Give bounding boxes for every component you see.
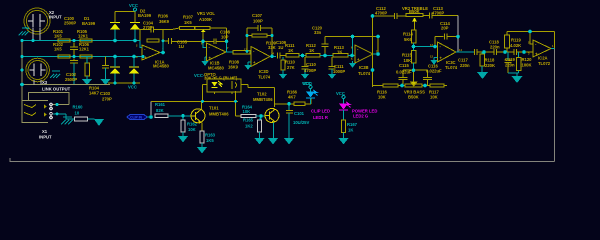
svg-text:10P: 10P <box>221 35 229 40</box>
svg-text:C110: C110 <box>306 62 316 67</box>
wire: IC2D output <box>270 56 276 58</box>
resistor R161 <box>155 102 191 118</box>
wire: mid tap to IC3C minus <box>414 46 436 48</box>
svg-text:VCC: VCC <box>129 3 138 8</box>
svg-text:C103: C103 <box>100 91 111 96</box>
svg-text:TL074: TL074 <box>445 65 458 70</box>
svg-text:R163: R163 <box>205 133 216 138</box>
capacitor C109 (series 1U) <box>276 40 287 59</box>
wire: IC3C output <box>456 51 475 53</box>
svg-text:16K9: 16K9 <box>228 65 239 70</box>
capacitor C108 (feedback) <box>203 30 231 45</box>
wire: IC2B output node <box>373 53 380 55</box>
capacitor C117 <box>458 49 494 68</box>
resistor R117 <box>429 84 447 100</box>
wire: right vertical return from IC2A output <box>554 32 556 49</box>
svg-text:12K1: 12K1 <box>78 34 89 39</box>
svg-text:1U: 1U <box>179 44 184 49</box>
op-amp IC2B <box>351 45 378 76</box>
transistor T102 <box>253 92 279 145</box>
ground at IC3C plus <box>431 58 438 66</box>
svg-text:VR1 VOL: VR1 VOL <box>197 11 215 16</box>
capacitor C110 4700P (shunt) <box>301 57 316 79</box>
capacitor C111 1000P (shunt) <box>328 57 345 79</box>
svg-text:BA199: BA199 <box>138 13 152 18</box>
transistor T101 <box>191 101 229 131</box>
ground (hatched) at X3 <box>50 71 60 78</box>
svg-text:R114: R114 <box>403 32 413 37</box>
svg-text:4700P: 4700P <box>432 11 444 16</box>
wire: IC2A minus from bracket <box>530 32 533 45</box>
svg-text:33n: 33n <box>314 30 322 35</box>
svg-text:IC2B: IC2B <box>359 65 369 70</box>
svg-text:27K: 27K <box>287 65 295 70</box>
svg-text:12K1: 12K1 <box>79 47 90 52</box>
resistor R114 (vertical) <box>403 30 416 47</box>
feedback C104 bracket <box>140 21 163 42</box>
svg-text:10K: 10K <box>188 127 196 132</box>
svg-text:1K5: 1K5 <box>54 34 62 39</box>
resistor R163 (emitter) <box>197 131 216 154</box>
wire: C113 to IC3C output node <box>457 16 459 53</box>
svg-text:R161: R161 <box>155 102 166 107</box>
capacitor C119 (shunt) <box>505 52 516 73</box>
capacitor C102 <box>65 59 78 86</box>
svg-text:4K7: 4K7 <box>288 95 296 100</box>
svg-text:TL074: TL074 <box>258 75 271 80</box>
svg-text:INPUT: INPUT <box>49 15 62 20</box>
potentiometer VR3 BASS <box>404 84 430 100</box>
svg-text:CLIP LED: CLIP LED <box>311 109 330 114</box>
svg-text:10K: 10K <box>430 95 438 100</box>
svg-text:10K: 10K <box>243 109 251 114</box>
svg-text:INPUT: INPUT <box>39 135 52 140</box>
resistor R106 <box>79 42 92 58</box>
wire: X3 pins bus <box>22 84 110 86</box>
wire: IC1B output <box>226 41 233 52</box>
svg-text:VCC: VCC <box>303 81 312 86</box>
wire: collector bus <box>151 100 238 102</box>
capacitor C101 (shunt) <box>284 104 310 145</box>
svg-text:LED2 G: LED2 G <box>353 114 368 119</box>
resistor R105 <box>77 29 92 42</box>
svg-text:BA199: BA199 <box>82 21 96 26</box>
diode D1 BA199 <box>82 12 135 41</box>
svg-text:10U/25V: 10U/25V <box>293 120 310 125</box>
svg-text:1K5: 1K5 <box>184 20 192 25</box>
resistor R118 (shunt) <box>477 52 495 79</box>
svg-text:C107: C107 <box>252 13 263 18</box>
svg-text:220n: 220n <box>490 45 500 50</box>
wire: bottom return line <box>10 158 555 162</box>
svg-text:10: 10 <box>75 111 80 116</box>
capacitor C120b (series) <box>514 49 533 55</box>
capacitor C103 (vertical) <box>100 57 112 102</box>
svg-text:1K: 1K <box>348 128 353 133</box>
svg-text:X3: X3 <box>42 80 48 85</box>
wire: X1 tip to link switch <box>53 104 69 106</box>
svg-text:1K2: 1K2 <box>245 124 253 129</box>
svg-text:R120: R120 <box>522 57 533 62</box>
svg-text:220n: 220n <box>505 63 515 68</box>
diode D3 (clamp pair) <box>110 57 120 84</box>
svg-text:1K: 1K <box>288 48 293 53</box>
svg-text:100K: 100K <box>522 63 532 68</box>
svg-text:T102: T102 <box>257 92 267 97</box>
resistor R164 <box>241 105 265 118</box>
resistor R108 <box>228 51 251 70</box>
net flag CLIP <box>127 115 151 120</box>
wire: opto right-bottom to R164 <box>236 91 242 116</box>
wire: left vertical to X1 <box>21 41 23 101</box>
svg-text:VCC: VCC <box>128 85 137 90</box>
svg-text:1000P: 1000P <box>333 69 345 74</box>
resistor R116 <box>373 84 406 100</box>
wire: IC1A minus input <box>140 41 142 48</box>
wire: opto right-top to T102 collector <box>241 85 275 108</box>
capacitor C101 (between rows) <box>70 43 78 56</box>
wire: IC2A output <box>551 48 555 50</box>
svg-text:T101: T101 <box>209 105 219 110</box>
svg-text:A100K: A100K <box>199 17 212 22</box>
op-amp IC3C <box>430 42 462 70</box>
wire: row2 <box>22 56 142 58</box>
diode D4 (clamp pair) <box>129 57 139 84</box>
wire: VR1 wiper down <box>202 32 204 41</box>
resistor R166 <box>287 90 311 106</box>
potentiometer VR1 VOL <box>195 11 227 41</box>
svg-text:MC4580: MC4580 <box>208 66 224 71</box>
optocoupler OPTO <box>204 72 241 94</box>
connector X2 INPUT <box>24 8 62 34</box>
svg-text:1U: 1U <box>278 45 283 50</box>
svg-text:14K7: 14K7 <box>89 91 100 96</box>
resistor R113 <box>333 45 355 57</box>
resistor R115 (vertical) <box>402 47 416 71</box>
feedback bracket C114 20P <box>435 21 458 47</box>
wire: clip node vertical <box>150 101 152 117</box>
LED2 POWER (magenta) <box>336 91 377 120</box>
svg-text:R119: R119 <box>511 38 521 43</box>
ground at IC2D plus <box>245 62 252 70</box>
svg-text:B50K: B50K <box>408 95 419 100</box>
resistor R112 <box>306 43 333 57</box>
op-amp IC1B <box>201 42 229 71</box>
potentiometer VR2 TREBLE <box>402 6 428 30</box>
svg-text:100P: 100P <box>253 19 263 24</box>
svg-text:R115: R115 <box>402 53 412 58</box>
resistor R110 27K (shunt) <box>279 57 295 79</box>
resistor R167 <box>339 120 358 145</box>
resistor R104 (vertical) <box>82 57 100 96</box>
svg-text:270P: 270P <box>143 25 153 30</box>
svg-text:20P: 20P <box>441 26 449 31</box>
wire: IC1A output <box>160 41 163 53</box>
svg-text:LED1 R: LED1 R <box>313 115 328 120</box>
resistor R162 (shunt) <box>178 116 198 143</box>
resistor R120 (shunt) <box>508 52 532 83</box>
diode D2 BA199 <box>130 9 152 41</box>
svg-text:4700P: 4700P <box>304 68 316 73</box>
svg-text:30K7.5 G (BLUE): 30K7.5 G (BLUE) <box>204 76 238 81</box>
svg-text:TL074: TL074 <box>358 71 371 76</box>
resistor R106b 36K9 (feedback) <box>147 14 170 43</box>
wire: main vertical tone node <box>372 16 374 87</box>
svg-text:LINK OUTPUT: LINK OUTPUT <box>42 87 71 92</box>
svg-text:VCC: VCC <box>336 91 345 96</box>
svg-text:82K: 82K <box>156 108 164 113</box>
svg-text:4700P: 4700P <box>375 11 387 16</box>
svg-text:33K: 33K <box>268 45 276 50</box>
svg-text:C117: C117 <box>458 58 468 63</box>
wire: IC1B minus input <box>203 41 207 47</box>
ground (hatched) at X1 <box>61 117 73 125</box>
svg-text:MMBT406: MMBT406 <box>253 97 273 102</box>
feedback bracket C120 33n over IC2B <box>312 26 378 56</box>
VR3 wiper arrow <box>411 70 417 86</box>
wire: bass cap bracket <box>403 69 428 71</box>
svg-text:CLIP IN: CLIP IN <box>130 116 143 120</box>
svg-text:C115: C115 <box>399 63 409 68</box>
svg-text:MMBT406: MMBT406 <box>209 112 229 117</box>
connector X1 INPUT (jack) <box>22 101 52 140</box>
svg-text:R165: R165 <box>243 118 254 123</box>
wire: clamp rail <box>108 82 140 84</box>
wire: T102 collector branch <box>275 103 295 105</box>
op-amp IC2D <box>244 47 274 80</box>
svg-text:36K9: 36K9 <box>159 19 170 24</box>
svg-text:1K5: 1K5 <box>54 47 62 52</box>
op-amp IC1A <box>136 44 169 69</box>
svg-text:1K: 1K <box>337 50 342 55</box>
connector X3 LINK OUTPUT <box>26 58 71 91</box>
capacitor C105 (series) <box>163 38 203 49</box>
svg-text:R107: R107 <box>183 15 194 20</box>
ground at IC1B plus <box>202 57 209 66</box>
svg-text:MC4580: MC4580 <box>153 64 169 69</box>
resistor R111 <box>285 43 306 57</box>
svg-text:B50K: B50K <box>409 9 420 14</box>
capacitor C113 <box>423 6 458 19</box>
svg-text:5K6: 5K6 <box>404 37 412 42</box>
ground (hatched) at X2 <box>19 27 30 36</box>
svg-text:X1: X1 <box>42 129 48 134</box>
capacitor C118 <box>489 40 514 56</box>
resistor R102 <box>53 42 70 58</box>
svg-text:R118: R118 <box>485 58 495 63</box>
resistor R119 + top bracket <box>505 32 555 53</box>
resistor R160 <box>73 104 88 121</box>
svg-text:2500P: 2500P <box>65 77 77 82</box>
capacitor C115 <box>396 63 412 86</box>
treble wire top <box>373 15 395 17</box>
svg-text:0.022uF: 0.022uF <box>426 69 442 74</box>
svg-text:2500P: 2500P <box>64 21 76 26</box>
svg-text:R106: R106 <box>158 14 169 19</box>
wire: row1 <box>22 40 140 42</box>
ground at IC2B <box>349 61 356 68</box>
svg-text:C119: C119 <box>505 57 515 62</box>
svg-text:270P: 270P <box>102 97 112 102</box>
capacitor C112 <box>375 6 406 19</box>
svg-text:10K: 10K <box>378 95 386 100</box>
svg-text:TL072: TL072 <box>538 61 551 66</box>
capacitor C116 <box>423 64 442 86</box>
wire: X1 sleeve to R160 <box>53 114 75 119</box>
wire + arrow ground after R160 <box>88 118 95 120</box>
resistor R107 <box>163 15 195 30</box>
resistor R165 (shunt) <box>243 116 265 145</box>
svg-text:R167: R167 <box>347 122 358 127</box>
svg-text:1K: 1K <box>309 48 314 53</box>
svg-text:220n: 220n <box>460 63 470 68</box>
svg-text:C101: C101 <box>294 111 305 116</box>
svg-text:0.022uF: 0.022uF <box>396 70 412 75</box>
svg-text:R160: R160 <box>73 104 84 109</box>
svg-text:220K: 220K <box>485 63 495 68</box>
wire: opto left to T101 collector net <box>203 85 208 102</box>
svg-text:4.02K: 4.02K <box>510 43 521 48</box>
op-amp IC2A <box>528 40 554 66</box>
power VCC at diodes <box>129 3 138 11</box>
svg-text:1K5: 1K5 <box>206 138 214 143</box>
LED1 CLIP (blue) <box>303 81 330 120</box>
svg-text:IC2D: IC2D <box>259 69 269 74</box>
resistor R101 <box>53 29 70 42</box>
wire: X2 pins to row1 <box>33 28 40 41</box>
svg-text:IC2A: IC2A <box>538 56 548 61</box>
svg-text:R110: R110 <box>285 60 295 65</box>
feedback bracket C107/R109 <box>247 13 277 56</box>
